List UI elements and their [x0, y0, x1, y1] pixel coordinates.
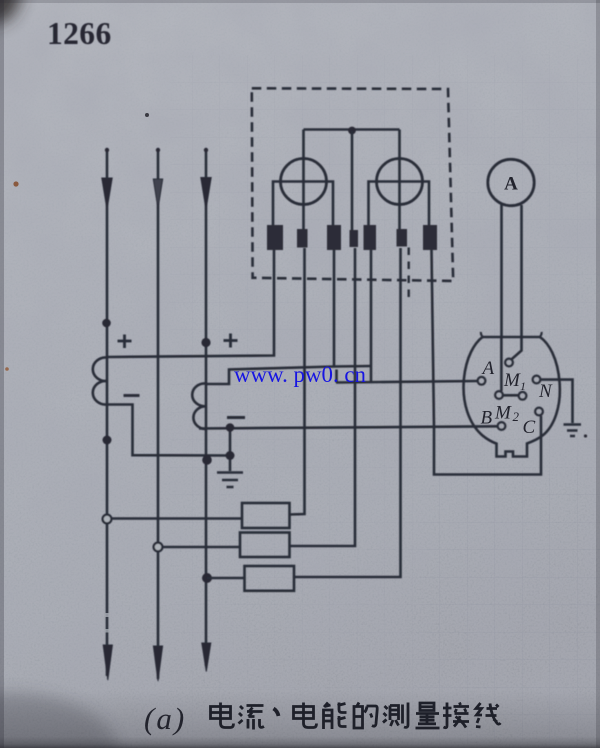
svg-text:M: M [503, 370, 521, 391]
svg-text:M: M [494, 403, 512, 424]
svg-text:1266: 1266 [47, 16, 112, 51]
svg-text:A: A [481, 358, 495, 379]
svg-text:1: 1 [520, 379, 526, 393]
svg-text:N: N [538, 381, 553, 402]
svg-text:2: 2 [513, 409, 520, 424]
svg-text:www. pw0. cn: www. pw0. cn [234, 362, 366, 387]
svg-text:B: B [481, 408, 493, 429]
svg-text:C: C [523, 417, 536, 438]
svg-text:A: A [504, 174, 518, 195]
